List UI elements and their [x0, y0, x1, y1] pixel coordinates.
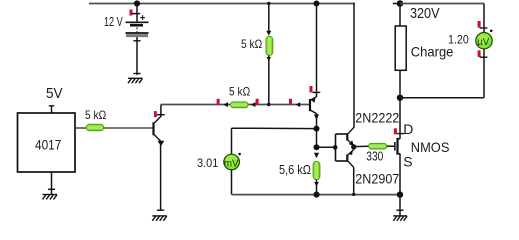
wire charge bottom lead [399, 70, 401, 97]
node bottom rail 5k6 junction [313, 192, 319, 198]
svg-text:mV: mV [224, 158, 239, 169]
wire emitters to R5 [354, 145, 369, 147]
node battery-top junction [134, 0, 140, 6]
current marker uV top [478, 21, 488, 28]
resistor Charge box [395, 26, 406, 70]
wire 4017 output [75, 127, 87, 129]
4017 power stub [49, 106, 54, 113]
wire NMOS source down [399, 154, 401, 195]
current arrow down below R2 [267, 57, 271, 61]
resistor R1 5k base [86, 124, 103, 130]
4017 ground stub [51, 172, 53, 195]
wire ground stub [399, 195, 401, 216]
wire 320V stub [393, 3, 400, 5]
wire 320V loop right [483, 4, 485, 98]
wire R4 to bottom rail [316, 180, 318, 195]
svg-text:2N2907: 2N2907 [355, 170, 399, 186]
wire mV loop left upper [231, 128, 233, 155]
svg-text:4017: 4017 [35, 138, 61, 154]
current arrow down above R2 [266, 31, 271, 36]
resistor R2 5k vertical [266, 36, 273, 55]
wire mV loop top [232, 127, 317, 129]
wire charge top lead [399, 4, 401, 27]
wire base drive to pair [317, 146, 334, 148]
node 320V bottom-left junction [397, 95, 403, 101]
node Q2 emitter branch junction [314, 1, 320, 7]
wire 320V loop top [400, 3, 484, 5]
svg-text:5 kΩ: 5 kΩ [85, 108, 106, 122]
battery terminal tick [133, 40, 140, 42]
current arrow down Q2 collector [314, 114, 319, 120]
ground battery [128, 74, 143, 84]
transistor Q1 NPN [154, 105, 165, 147]
node mV-loop top junction [314, 126, 320, 132]
wire 5k top branch lower lead [268, 56, 270, 105]
node bottom rail Q4 collector junction [352, 193, 355, 196]
svg-text:S: S [403, 153, 412, 169]
svg-text:330: 330 [366, 149, 383, 164]
svg-text:320V: 320V [410, 6, 440, 22]
transistor Q3 2N2222 NPN [347, 127, 354, 146]
wire mV loop left lower [231, 170, 233, 195]
node 320V top-left junction [397, 0, 404, 7]
wire battery top lead [136, 4, 138, 23]
wire R1 to Q1 base [104, 127, 153, 129]
transistor M2 NMOS [395, 138, 400, 155]
wire Q2 collector down [316, 113, 318, 147]
wire Q4 collector to bottom rail [353, 167, 355, 194]
node bottom rail ground junction [397, 191, 403, 197]
wire bottom rail [232, 194, 401, 196]
current marker Q2 emitter [310, 86, 321, 93]
svg-text:1.20: 1.20 [448, 32, 469, 46]
svg-text:5,6 kΩ: 5,6 kΩ [279, 163, 311, 177]
svg-text:3.01: 3.01 [197, 156, 219, 170]
wire R5 to gate [387, 145, 395, 147]
node base-drive junction [314, 144, 320, 150]
ground NMOS [393, 210, 407, 221]
resistor R4 5.6k vertical [313, 161, 320, 179]
current marker middle rail centre [251, 99, 259, 107]
battery V1 12V plus sign [140, 15, 145, 20]
svg-text:5 kΩ: 5 kΩ [229, 85, 250, 99]
wire pair base bar [336, 134, 348, 161]
current arrow down below R4 [314, 182, 319, 187]
ground Q1 [152, 210, 167, 221]
svg-text:12 V: 12 V [104, 14, 123, 29]
battery V1 12V [126, 22, 149, 35]
IC U1 4017 box [18, 113, 76, 172]
current arrow down above R4 [314, 153, 319, 158]
resistor R5 330 [369, 143, 387, 149]
wire battery bottom lead [136, 37, 138, 75]
wire 12V top rail [89, 3, 354, 5]
wire middle rail Q1 collector to Q2 base [161, 104, 310, 106]
ground 4017 [43, 189, 58, 199]
wire Q1 emitter to ground [160, 141, 162, 210]
svg-text:D: D [403, 121, 413, 137]
wire top rail corner [353, 3, 355, 5]
current marker middle rail right [289, 99, 300, 107]
current marker uV bottom [478, 50, 488, 57]
svg-text:NMOS: NMOS [411, 139, 450, 155]
meter M2 uV [476, 30, 493, 49]
node 5k branch junction [267, 2, 270, 5]
wire Q2 emitter up to rail [316, 4, 318, 97]
current marker NMOS drain [394, 128, 404, 134]
current marker Q1 collector [154, 111, 165, 117]
svg-text:µV: µV [477, 37, 490, 48]
transistor Q2 PNP [310, 97, 317, 114]
svg-text:5 kΩ: 5 kΩ [241, 37, 262, 51]
meter M1 mV [224, 153, 241, 170]
svg-text:5V: 5V [46, 85, 63, 102]
wire 320V loop bottom [400, 97, 484, 99]
svg-text:2N2222: 2N2222 [355, 109, 399, 125]
node emitter output junction [351, 144, 356, 149]
transistor Q4 2N2907 PNP [347, 150, 353, 168]
wire NMOS drain up [399, 98, 401, 139]
current marker middle rail left [217, 99, 228, 107]
current marker battery [130, 10, 141, 16]
node middle rail 5k junction [267, 103, 270, 106]
resistor R3 5k middle [230, 102, 248, 108]
node pair base input [333, 145, 338, 150]
wire 5k top branch upper lead [268, 4, 270, 32]
wire Q3 collector to top rail [353, 4, 355, 128]
